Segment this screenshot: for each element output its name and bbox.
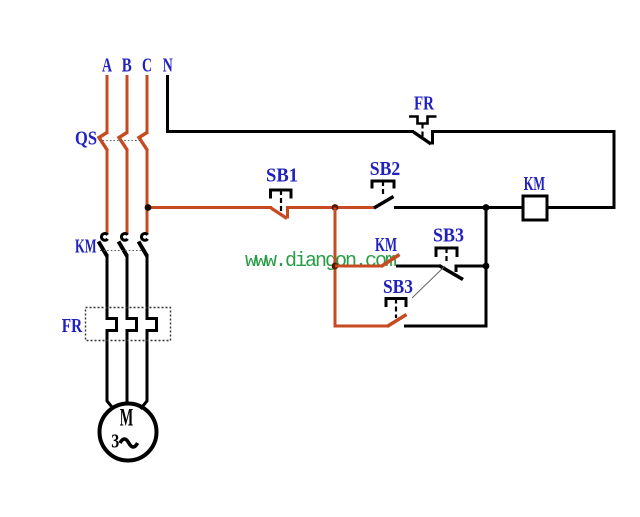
QS linkage dashed	[99, 140, 142, 142]
disconnect switch QS pole C	[139, 133, 148, 151]
wire dot to coil	[486, 206, 523, 209]
svg-text:M: M	[120, 405, 134, 432]
svg-text:N: N	[163, 55, 173, 77]
wire phase C mid	[146, 149, 149, 234]
wire phase C top	[146, 75, 149, 134]
thermal relay FR box dashed	[86, 308, 171, 341]
svg-text:FR: FR	[62, 315, 83, 337]
svg-text:SB1: SB1	[266, 165, 298, 187]
junction dot right top	[483, 204, 490, 211]
wire coil to right corner	[547, 206, 616, 209]
pushbutton SB2 (NO start)	[372, 181, 394, 208]
thermal heater FR pole A	[107, 319, 117, 331]
pushbutton SB3 NO	[386, 299, 407, 327]
wire lower rung black	[404, 325, 488, 328]
junction dot branch mid	[332, 263, 339, 270]
wire phase B mid	[126, 149, 129, 234]
svg-text:SB2: SB2	[370, 158, 401, 180]
wire phase B top	[126, 75, 129, 134]
svg-text:3: 3	[111, 431, 119, 453]
wire N	[168, 75, 415, 132]
svg-text:KM: KM	[524, 173, 545, 195]
svg-text:A: A	[102, 55, 112, 77]
svg-text:B: B	[122, 55, 132, 77]
thermal heater FR pole C	[147, 319, 157, 331]
wire phase A top	[106, 75, 109, 134]
wire phase A mid	[106, 149, 109, 234]
wire mid rung black	[396, 265, 440, 268]
wire phase A lower	[106, 254, 109, 320]
motor tilde	[120, 439, 138, 447]
linkage leader SB3	[412, 266, 445, 298]
pushbutton SB3 NC	[436, 248, 487, 280]
thermal contact FR	[409, 117, 437, 145]
wire phase C to motor	[141, 329, 148, 409]
svg-text:KM: KM	[75, 236, 97, 258]
thermal heater FR pole B	[127, 319, 137, 331]
contactor KM main contact B	[119, 234, 128, 256]
wire right drop	[613, 130, 616, 208]
svg-text:SB3: SB3	[383, 276, 413, 298]
wire right vertical control	[485, 208, 488, 328]
pushbutton SB1 (NC stop)	[271, 190, 292, 219]
wire SB1 to SB2 red	[288, 206, 376, 209]
svg-text:C: C	[142, 55, 152, 77]
wire top right	[431, 130, 616, 133]
svg-text:KM: KM	[375, 234, 397, 256]
contact KM aux (NO)	[381, 255, 400, 267]
svg-text:FR: FR	[414, 93, 434, 115]
wire SB2 to junction black	[394, 206, 487, 209]
motor M	[100, 404, 157, 461]
junction dot right mid	[483, 263, 490, 270]
contactor KM main contact A	[99, 234, 108, 257]
svg-text:QS: QS	[75, 128, 97, 150]
coil KM	[523, 196, 547, 220]
KM linkage dashed	[100, 250, 142, 252]
wire phase B lower	[126, 254, 129, 320]
wire lower rung red	[335, 325, 388, 328]
junction dot branch top	[332, 204, 339, 211]
wire control tap red	[146, 206, 272, 209]
svg-text:SB3: SB3	[433, 225, 464, 247]
disconnect switch QS pole B	[119, 133, 128, 151]
wire phase C lower	[146, 254, 149, 320]
wire phase A to motor	[107, 329, 114, 409]
wire phase B to motor	[126, 329, 129, 404]
wire mid rung red	[335, 265, 382, 268]
disconnect switch QS pole A	[99, 133, 108, 151]
contactor KM main contact C	[139, 234, 148, 256]
junction dot C phase	[145, 204, 152, 211]
wire branch vertical red	[334, 208, 337, 328]
